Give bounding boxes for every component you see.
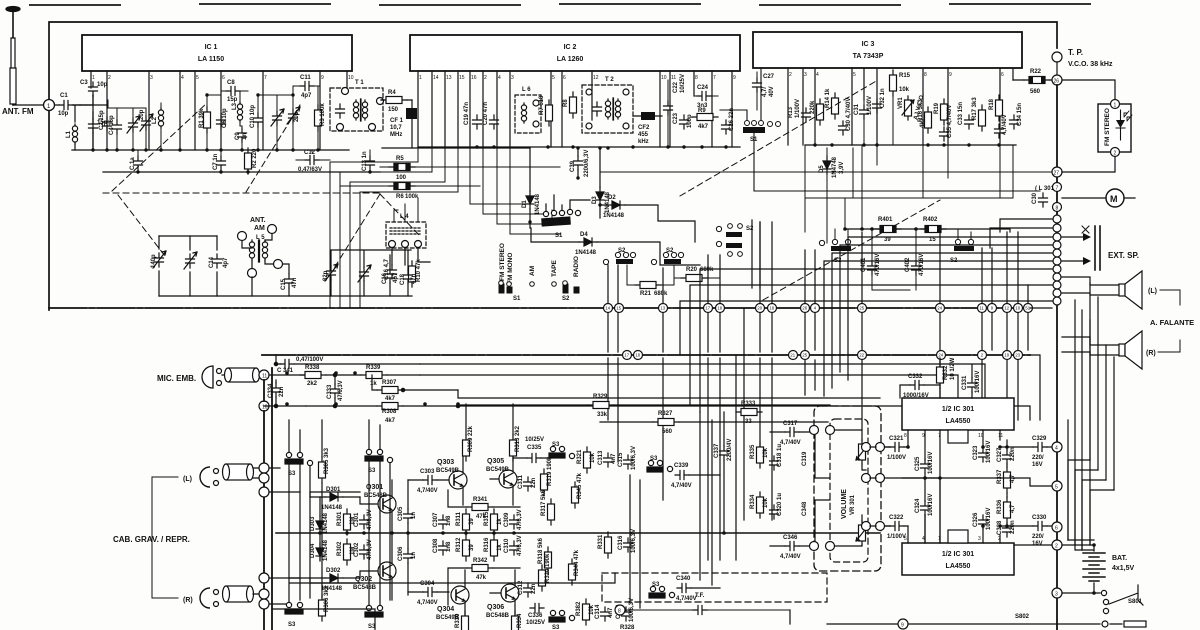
junction dots extra xyxy=(285,143,1096,595)
diode D3 1N4148 xyxy=(592,148,611,218)
svg-text:C8: C8 xyxy=(227,80,235,86)
node 9 xyxy=(898,619,908,629)
svg-text:4: 4 xyxy=(181,75,184,81)
switch S3 col2 bottom xyxy=(365,605,383,630)
svg-text:1N4148: 1N4148 xyxy=(575,250,597,256)
svg-text:C308: C308 xyxy=(433,538,439,553)
svg-text:C10 10p: C10 10p xyxy=(250,105,256,128)
svg-text:VOLUME: VOLUME xyxy=(841,489,848,519)
node 3 right xyxy=(1052,588,1062,598)
svg-text:R4: R4 xyxy=(388,90,396,96)
svg-text:39: 39 xyxy=(469,544,475,551)
svg-text:100k: 100k xyxy=(405,194,419,200)
svg-text:2: 2 xyxy=(1055,544,1058,550)
svg-text:1N4148: 1N4148 xyxy=(323,539,329,561)
svg-text:82p: 82p xyxy=(323,270,329,281)
resistor R17 3k3 xyxy=(972,97,986,131)
svg-text:9: 9 xyxy=(321,75,324,81)
svg-text:6: 6 xyxy=(1055,526,1058,532)
svg-text:C30: C30 xyxy=(1032,192,1038,204)
svg-text:S1: S1 xyxy=(555,233,563,239)
svg-text:1N4148: 1N4148 xyxy=(535,193,541,215)
dashed bias box xyxy=(602,573,827,602)
svg-text:D302: D302 xyxy=(326,568,341,574)
IC pin wires xyxy=(908,430,1000,543)
svg-text:47n: 47n xyxy=(411,273,417,284)
svg-text:R8: R8 xyxy=(563,99,569,107)
resistor R305 3k3 xyxy=(319,447,331,483)
FM STEREO indicator box xyxy=(1098,100,1132,157)
svg-text:4n7: 4n7 xyxy=(611,453,617,464)
diode D1 1N4148 xyxy=(522,148,541,228)
svg-text:100/6,3V: 100/6,3V xyxy=(631,446,637,470)
svg-text:Q306: Q306 xyxy=(487,604,504,611)
IC1 box xyxy=(82,35,352,71)
svg-text:8: 8 xyxy=(695,75,698,81)
bottom connection wires xyxy=(272,573,790,630)
junction dots rail1 xyxy=(91,93,371,173)
svg-text:LA4550: LA4550 xyxy=(946,563,971,570)
nodes 33 34 35 xyxy=(259,573,269,583)
wire volume to bus xyxy=(885,447,1052,545)
svg-text:4p7: 4p7 xyxy=(223,257,229,268)
speaker L xyxy=(1062,271,1142,309)
svg-text:25: 25 xyxy=(859,306,864,311)
svg-text:10 1/2W: 10 1/2W xyxy=(950,357,956,380)
capacitor C4 16p xyxy=(109,108,122,150)
svg-text:16V: 16V xyxy=(1032,541,1043,547)
svg-text:R19: R19 xyxy=(934,102,940,114)
capacitor C30 4,7/40V xyxy=(839,98,853,135)
capacitor C329 220/16V xyxy=(1000,436,1052,468)
resistor R306 3k3 xyxy=(319,585,331,621)
switch S1 contacts xyxy=(499,281,535,302)
svg-text:C18: C18 xyxy=(400,273,406,285)
svg-text:T 2: T 2 xyxy=(605,77,614,83)
svg-text:15: 15 xyxy=(929,237,936,243)
svg-text:R402: R402 xyxy=(923,217,938,223)
svg-text:C9: C9 xyxy=(235,132,241,140)
mic feed wires xyxy=(264,375,306,406)
capacitor C12 0,47/63V xyxy=(296,150,330,173)
node 1 junction xyxy=(44,100,55,111)
svg-text:R401: R401 xyxy=(878,217,893,223)
svg-text:D3: D3 xyxy=(592,196,598,204)
svg-text:2: 2 xyxy=(484,75,487,81)
svg-text:47/6,3V: 47/6,3V xyxy=(367,539,373,560)
nested wire bundle chain to amp xyxy=(990,219,1052,248)
volume nodes xyxy=(810,426,885,551)
C341 feed from bus xyxy=(276,355,420,364)
resistor R334b 10k xyxy=(750,492,769,518)
svg-text:C 1a: C 1a xyxy=(130,157,136,170)
svg-text:16V: 16V xyxy=(1032,462,1043,468)
wire bundle from buses to speakers/jack xyxy=(1030,308,1052,420)
variable capacitor FM gang a xyxy=(127,108,140,150)
capacitor C33 15n xyxy=(958,102,974,129)
switch S801 xyxy=(1101,585,1143,614)
svg-text:17: 17 xyxy=(624,353,629,358)
svg-text:C329: C329 xyxy=(1032,436,1047,442)
resistor R320 190k xyxy=(539,553,552,591)
svg-text:19: 19 xyxy=(1004,353,1009,358)
svg-text:C32 1n: C32 1n xyxy=(880,88,886,108)
capacitor C14 4p7 xyxy=(209,254,229,268)
svg-text:D1: D1 xyxy=(522,200,528,208)
svg-text:560: 560 xyxy=(1030,89,1041,95)
diode D304 1N4148 xyxy=(310,539,329,561)
resistor R19 xyxy=(934,99,948,125)
variable capacitor AM 140p xyxy=(151,251,166,268)
svg-text:C336: C336 xyxy=(528,613,543,619)
svg-text:C305: C305 xyxy=(398,506,404,521)
capacitor C341 0,47/100V xyxy=(277,357,323,374)
capacitor C303 4,7/40V xyxy=(408,469,449,494)
svg-text:100/16V: 100/16V xyxy=(986,508,992,530)
capacitor C16 4p7 xyxy=(382,269,399,296)
switch S3 right xyxy=(647,456,663,472)
svg-text:AM: AM xyxy=(254,225,265,232)
open contact xyxy=(307,460,312,465)
svg-text:C20 47n: C20 47n xyxy=(483,102,489,125)
svg-text:14: 14 xyxy=(433,75,439,81)
svg-text:R3 100k: R3 100k xyxy=(320,103,326,126)
svg-text:9: 9 xyxy=(733,75,736,81)
svg-text:10k: 10k xyxy=(590,452,596,463)
svg-text:11: 11 xyxy=(979,306,984,311)
capacitor C324 100/16V xyxy=(915,478,934,543)
svg-text:1k: 1k xyxy=(370,381,377,387)
resistor R20 680k xyxy=(674,267,720,282)
resistor R309 22k xyxy=(463,404,475,461)
resistor R319 190k xyxy=(541,456,554,495)
svg-text:6: 6 xyxy=(222,75,225,81)
capacitor C301 47/6,3V xyxy=(354,509,373,530)
resistor R317 5k6 xyxy=(541,489,555,525)
capacitor C308 1n8 xyxy=(433,538,452,555)
svg-text:15: 15 xyxy=(616,306,621,311)
capacitor C2 15p xyxy=(99,110,112,131)
capacitor C22 10/25V xyxy=(664,74,687,147)
node 11 xyxy=(259,370,269,380)
svg-text:3: 3 xyxy=(804,72,807,78)
svg-text:220n: 220n xyxy=(1010,447,1016,461)
svg-text:C309: C309 xyxy=(504,512,510,527)
capacitor C11 4p7 xyxy=(293,75,320,99)
svg-text:C401: C401 xyxy=(861,257,867,272)
svg-text:LA 1150: LA 1150 xyxy=(198,56,224,63)
svg-text:C33 15n: C33 15n xyxy=(958,102,964,125)
dashed gang diagonal right IC2 xyxy=(680,80,878,196)
inductor L2 xyxy=(152,103,164,150)
svg-text:1n8: 1n8 xyxy=(446,541,452,552)
svg-text:4,7/40V: 4,7/40V xyxy=(417,488,438,494)
svg-text:C320 1u: C320 1u xyxy=(777,493,783,516)
svg-text:C335: C335 xyxy=(527,445,542,451)
capacitor C312 22n xyxy=(518,580,537,597)
svg-text:1n: 1n xyxy=(242,133,248,140)
resistor R8 xyxy=(563,92,577,118)
svg-text:C304: C304 xyxy=(420,581,435,587)
svg-text:4k7: 4k7 xyxy=(385,418,396,424)
svg-text:1N4148: 1N4148 xyxy=(603,213,625,219)
svg-text:220/: 220/ xyxy=(1032,534,1044,540)
wire top frame xyxy=(49,22,1057,99)
svg-text:BC548B: BC548B xyxy=(486,613,510,619)
fuse element xyxy=(1124,621,1146,627)
svg-text:R329: R329 xyxy=(593,394,608,400)
dashed gang diagonal AM b xyxy=(333,194,380,270)
resistor R22 560 xyxy=(1013,69,1051,95)
svg-text:C30 4,7/40V: C30 4,7/40V xyxy=(846,98,852,131)
resistor R344 47k xyxy=(569,549,581,585)
svg-text:Q303: Q303 xyxy=(437,459,454,466)
volume wires xyxy=(835,430,876,546)
wires right of battery xyxy=(1062,545,1100,593)
capacitor C327 220n xyxy=(997,440,1016,467)
svg-text:C333: C333 xyxy=(327,384,333,399)
capacitor C39 2200/6,3V xyxy=(570,148,590,178)
dashed gang diagonal FM a xyxy=(112,103,207,191)
long feed wires to volume area xyxy=(420,364,985,404)
dashed gang diagonal FM b xyxy=(246,105,300,192)
resistor R402 xyxy=(920,217,946,243)
variable capacitor c xyxy=(271,95,284,150)
svg-text:R13: R13 xyxy=(788,106,794,118)
svg-text:S3: S3 xyxy=(650,456,658,462)
svg-text:R20: R20 xyxy=(686,267,698,273)
svg-text:R319 190k: R319 190k xyxy=(547,456,553,486)
capacitor C326 100/16V xyxy=(973,508,992,530)
wire pin7-pin1 xyxy=(902,478,940,543)
diode D2 1N4148 xyxy=(600,195,695,242)
svg-text:17: 17 xyxy=(705,306,710,311)
dashed gang link horizontal xyxy=(103,192,380,194)
svg-text:S3: S3 xyxy=(552,625,560,630)
svg-text:ANT.: ANT. xyxy=(250,217,266,224)
long verticals bottom right xyxy=(1068,300,1090,550)
capacitor C15 47n xyxy=(281,264,298,296)
svg-text:R305 3k3: R305 3k3 xyxy=(324,447,330,474)
wire left frame xyxy=(48,111,50,310)
svg-text:1: 1 xyxy=(92,75,95,81)
capacitor C1 xyxy=(55,93,80,117)
svg-text:47/6,3V: 47/6,3V xyxy=(338,380,344,401)
antenna ANT.FM xyxy=(6,7,44,106)
variable capacitor trimmer 2 xyxy=(358,265,371,296)
transistor Q305 BC549B xyxy=(486,440,517,505)
svg-text:R311: R311 xyxy=(456,511,462,526)
capacitor C313 4n7 xyxy=(598,450,617,467)
svg-text:21: 21 xyxy=(790,353,795,358)
resistor R14 1k xyxy=(825,88,839,119)
capacitor C317 4,7/40V xyxy=(770,421,815,446)
svg-text:L1: L1 xyxy=(66,130,72,138)
IC301a box xyxy=(902,398,1014,443)
capacitor C36 4,7/40V xyxy=(995,114,1009,138)
svg-text:4,7/40V: 4,7/40V xyxy=(671,483,692,489)
resistor R336 4,7 xyxy=(997,497,1016,523)
capacitor C336 10/25V xyxy=(526,604,545,627)
resistor R313 2k2 xyxy=(510,404,522,461)
wire to IC1 input xyxy=(80,104,107,106)
input wire from C1 xyxy=(73,95,93,122)
svg-text:Q301: Q301 xyxy=(366,484,383,491)
trimmer VR1 4k7 AJ V.C.O. xyxy=(898,93,926,128)
wire y=229 supply xyxy=(845,229,1010,232)
svg-text:1k: 1k xyxy=(497,518,503,525)
svg-text:4: 4 xyxy=(1055,446,1058,452)
svg-text:R6: R6 xyxy=(396,194,404,200)
svg-text:1N4748: 1N4748 xyxy=(832,156,838,178)
svg-text:1: 1 xyxy=(1114,103,1117,109)
svg-text:R331: R331 xyxy=(598,534,604,549)
transformer T.F. xyxy=(620,606,790,615)
svg-text:S2: S2 xyxy=(618,248,626,254)
svg-text:150: 150 xyxy=(388,107,399,113)
capacitor C305 1n xyxy=(398,480,417,533)
svg-text:4: 4 xyxy=(498,75,501,81)
switch S3 mid xyxy=(549,442,565,458)
svg-text:T.F.: T.F. xyxy=(695,593,705,599)
resistor R335 10k xyxy=(750,442,769,468)
svg-text:1n: 1n xyxy=(411,552,417,559)
variable capacitor 82p xyxy=(323,264,338,296)
svg-text:2: 2 xyxy=(789,72,792,78)
svg-text:R16 3k3: R16 3k3 xyxy=(918,99,924,122)
svg-text:Q304: Q304 xyxy=(437,606,454,613)
capacitor C16b 4,7 xyxy=(384,258,397,280)
resistor R302 1M xyxy=(337,539,356,565)
svg-text:S3: S3 xyxy=(652,582,660,588)
switch S2 contacts xyxy=(552,281,579,302)
svg-text:10/25V: 10/25V xyxy=(525,437,544,443)
svg-text:10: 10 xyxy=(1015,306,1020,311)
ceramic filter CF2 455kHz xyxy=(633,112,662,145)
wire top of gang xyxy=(108,100,146,108)
speaker bracket xyxy=(1158,290,1180,352)
main left double bus xyxy=(263,380,265,630)
resistor R332 10 1/2W xyxy=(937,357,957,398)
mic cable cylinder xyxy=(222,368,264,382)
resistor R10 47k xyxy=(409,259,423,287)
svg-text:R337: R337 xyxy=(997,469,1003,484)
resistor R315 1k xyxy=(484,509,503,535)
svg-text:C23: C23 xyxy=(673,112,679,124)
svg-text:R338: R338 xyxy=(305,365,320,371)
svg-text:47/6,3V: 47/6,3V xyxy=(367,509,373,530)
svg-text:8: 8 xyxy=(924,72,927,78)
capacitor C330 220/16V xyxy=(1000,515,1052,547)
capacitor C325 100/16V xyxy=(915,452,934,478)
svg-text:C39: C39 xyxy=(570,160,576,172)
svg-text:4x1,5V: 4x1,5V xyxy=(1112,565,1135,572)
resistor R307 4k7 xyxy=(372,375,458,402)
ceramic filter CF1 10,7MHz xyxy=(390,100,417,148)
capacitor C328 220n xyxy=(997,520,1016,537)
svg-text:(L): (L) xyxy=(183,476,192,483)
svg-text:20: 20 xyxy=(757,306,762,311)
svg-text:C319: C319 xyxy=(802,451,808,466)
resistor R337 4,7 xyxy=(997,467,1016,497)
svg-text:C346: C346 xyxy=(783,535,798,541)
svg-text:10,7: 10,7 xyxy=(390,125,402,131)
svg-text:C323: C323 xyxy=(973,445,979,460)
capacitor C23 100p xyxy=(673,112,693,129)
volume inner dashed box xyxy=(830,419,868,562)
resistor R334 2k2 xyxy=(512,611,524,630)
svg-text:C16: C16 xyxy=(382,272,388,284)
node 5 right xyxy=(1052,481,1062,491)
svg-text:C311: C311 xyxy=(518,474,524,489)
svg-text:22n: 22n xyxy=(279,386,285,397)
svg-text:S802: S802 xyxy=(1015,614,1030,620)
svg-text:0,47/100V: 0,47/100V xyxy=(296,357,323,363)
resistor R330 22k xyxy=(455,611,469,630)
svg-text:4,7/40V: 4,7/40V xyxy=(417,600,438,606)
capacitor C401 470/16V xyxy=(861,229,910,290)
svg-text:TAPE: TAPE xyxy=(551,259,558,277)
svg-text:16: 16 xyxy=(717,306,722,311)
svg-text:4,7/40V: 4,7/40V xyxy=(676,596,697,602)
svg-text:9: 9 xyxy=(901,623,904,629)
svg-text:11: 11 xyxy=(262,374,267,380)
FM stereo indicator wiring xyxy=(1062,80,1115,172)
svg-text:18: 18 xyxy=(769,306,774,311)
svg-text:R330: R330 xyxy=(455,613,461,628)
svg-text:R318 5k6: R318 5k6 xyxy=(538,537,544,564)
resistor R7 xyxy=(539,95,553,126)
svg-text:R382: R382 xyxy=(576,601,582,616)
svg-text:C324: C324 xyxy=(915,498,921,513)
transistor Q302 BC548B xyxy=(353,533,396,600)
svg-text:100/16V: 100/16V xyxy=(928,494,934,516)
capacitor C339 4,7/40V xyxy=(671,463,720,489)
capacitor C331 100/16V xyxy=(962,365,981,398)
svg-text:22: 22 xyxy=(859,353,864,358)
svg-text:6: 6 xyxy=(563,75,566,81)
head L cable cylinder xyxy=(223,464,254,480)
svg-text:14: 14 xyxy=(605,306,610,311)
svg-text:C307: C307 xyxy=(433,512,439,527)
capacitor C5 xyxy=(89,112,108,150)
svg-text:IC 3: IC 3 xyxy=(862,41,875,48)
svg-text:C402: C402 xyxy=(905,257,911,272)
scan-edge dashes along very top xyxy=(30,4,1090,5)
resistor R329 33k xyxy=(460,394,830,418)
svg-text:47/6,3V: 47/6,3V xyxy=(517,509,523,530)
IC2 pin wires xyxy=(418,71,732,147)
svg-text:3: 3 xyxy=(511,75,514,81)
svg-text:10: 10 xyxy=(348,75,354,81)
svg-text:4,7/40V: 4,7/40V xyxy=(1002,114,1008,135)
capacitor C319 100/6,3V xyxy=(616,598,635,622)
volume outer dashed box xyxy=(814,406,881,571)
svg-text:R21: R21 xyxy=(640,291,652,297)
switch S2 supply right xyxy=(950,229,974,264)
svg-text:R341: R341 xyxy=(473,497,488,503)
svg-text:R15: R15 xyxy=(899,73,911,79)
capacitor C316 100/6,3V xyxy=(618,529,637,553)
svg-text:AM: AM xyxy=(529,266,536,276)
svg-text:R14 1k: R14 1k xyxy=(825,88,831,108)
transformer T1 dashed box xyxy=(330,80,384,131)
svg-text:7: 7 xyxy=(264,75,267,81)
capacitor C333 47/6,3V xyxy=(327,375,344,406)
svg-text:4k7: 4k7 xyxy=(698,124,709,130)
capacitor C310 47/6,3V xyxy=(504,535,523,556)
junction dots mic xyxy=(274,362,459,407)
